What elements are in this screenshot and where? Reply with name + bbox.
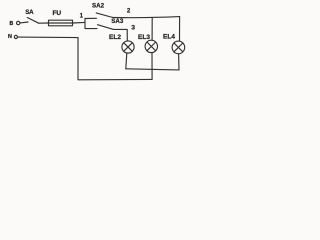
switch SA2 blade: [96, 13, 113, 18]
bus wire under lamps: [126, 69, 179, 70]
node 1 branch bracket: [85, 18, 97, 28]
svg-text:2: 2: [127, 8, 131, 15]
terminal N: [14, 35, 17, 38]
wire lamp EL3 bottom through bus to lower bus: [151, 53, 153, 80]
svg-text:B: B: [10, 21, 14, 27]
background: [0, 0, 194, 90]
svg-text:EL3: EL3: [138, 34, 150, 41]
lamp EL2: [122, 41, 134, 53]
wire N to left vertical: [18, 36, 79, 39]
svg-text:FU: FU: [52, 10, 61, 17]
fuse FU body: [49, 20, 73, 26]
wire drop node 2 to lamp EL3: [151, 18, 153, 40]
switch SA1 blade: [27, 18, 38, 24]
fuse FU element wire: [49, 22, 73, 24]
wire terminal B to SA1: [20, 21, 28, 24]
lamp EL3: [145, 40, 157, 52]
wire drop node 2 to lamp EL4: [179, 17, 181, 42]
svg-text:SA: SA: [25, 9, 34, 16]
svg-text:EL2: EL2: [109, 34, 121, 41]
lamp EL4: [172, 41, 185, 54]
wire node 3 (SA3 output) with drop to lamp EL2: [114, 29, 128, 41]
wire FU to node 1: [73, 21, 86, 24]
wire lamp EL4 bottom to bus: [178, 54, 180, 70]
lower return bus wire: [78, 38, 152, 80]
switch SA3 blade: [98, 25, 114, 30]
wire SA1 to FU: [39, 22, 49, 24]
svg-text:SA3: SA3: [111, 18, 124, 25]
svg-text:3: 3: [131, 25, 135, 32]
wire lamp EL2 bottom to bus: [126, 53, 127, 69]
svg-text:SA2: SA2: [92, 2, 105, 9]
svg-text:EL4: EL4: [163, 34, 175, 41]
terminal B: [17, 21, 20, 24]
wire node 2 (SA2 output to EL4 drop): [113, 17, 180, 18]
svg-text:N: N: [8, 34, 12, 40]
svg-text:1: 1: [80, 12, 84, 19]
